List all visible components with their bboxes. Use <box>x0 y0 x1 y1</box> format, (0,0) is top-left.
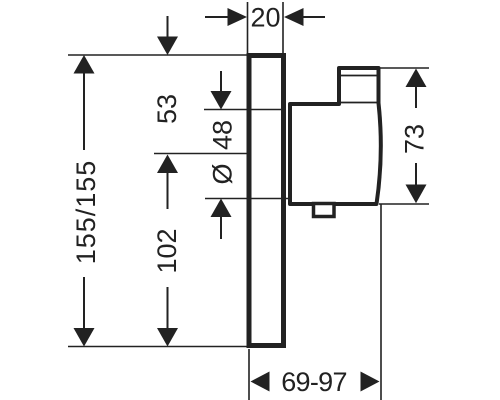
dim 69-97 right arrow <box>361 372 380 392</box>
dim 20 right extension line <box>282 2 284 53</box>
dim 48 bottom arrow <box>211 199 232 240</box>
svg-text:20: 20 <box>250 3 280 33</box>
dim 102 top arrow <box>157 155 178 210</box>
svg-text:Ø: Ø <box>208 163 238 184</box>
svg-text:73: 73 <box>400 124 430 154</box>
wall plate <box>249 56 284 346</box>
leader line plate top (A) <box>68 54 249 56</box>
dim 73 top extension line <box>380 67 429 69</box>
dim 73 bottom extension line <box>379 203 429 205</box>
dim 69-97 left arrow <box>251 372 270 392</box>
dim 102 bottom arrow <box>157 287 178 347</box>
leader line plate bottom (E) <box>68 346 248 348</box>
dim 20 left extension line <box>247 2 249 53</box>
svg-text:102: 102 <box>152 228 182 273</box>
dim 69-97 right extension line <box>380 204 382 400</box>
dim 155/155 bottom arrow <box>74 277 95 347</box>
dim 155/155 top arrow <box>74 55 95 150</box>
svg-text:53: 53 <box>152 94 182 124</box>
bottom tab <box>314 204 335 217</box>
leader line circle bottom (D) <box>205 198 290 200</box>
cap rim line <box>341 75 377 77</box>
svg-text:69-97: 69-97 <box>281 367 347 397</box>
dim 53 top arrow <box>157 16 178 55</box>
dim 20 right arrow <box>284 8 325 26</box>
leader line circle top (B) <box>204 109 284 111</box>
leader line center (C) <box>154 153 249 155</box>
cap base line <box>341 102 377 104</box>
dim 73 bottom arrow <box>406 163 427 203</box>
svg-text:155/155: 155/155 <box>71 160 101 265</box>
dim 20 left arrow <box>205 8 247 26</box>
svg-text:48: 48 <box>208 120 238 150</box>
valve body with stop cap <box>290 68 381 204</box>
dim 69-97 left extension line <box>248 349 250 400</box>
dim 73 top arrow <box>406 69 427 109</box>
dim 48 top arrow <box>211 71 232 110</box>
